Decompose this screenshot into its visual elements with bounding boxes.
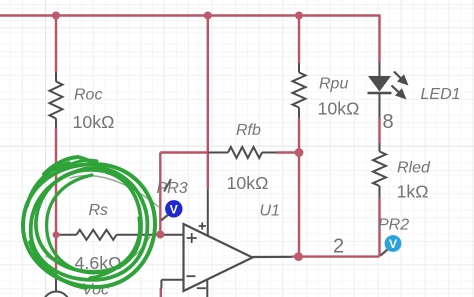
green scribble annotation around Rs: [23, 157, 159, 288]
wire top rail: [0, 16, 380, 63]
node junction dots: [52, 12, 303, 262]
voltage source Voc: [43, 270, 70, 297]
resistor Roc: [50, 72, 63, 128]
probe PR3: [161, 200, 183, 220]
svg-text:8: 8: [383, 111, 394, 133]
op-amp V- marker: [197, 287, 206, 289]
wire Roc to Voc source: [55, 128, 57, 270]
wire output horizontal: [292, 255, 380, 257]
node rail-Roc: [52, 12, 60, 20]
svg-text:2: 2: [333, 236, 344, 258]
svg-text:U1: U1: [260, 203, 280, 220]
op-amp + input marker: [187, 222, 206, 288]
resistor Rled: [373, 143, 386, 197]
wire output node vertical: [298, 153, 300, 257]
svg-text:Rfb: Rfb: [236, 122, 261, 139]
svg-text:Rs: Rs: [89, 202, 109, 219]
svg-text:10kΩ: 10kΩ: [227, 173, 269, 193]
wire Rfb right segment: [277, 151, 300, 153]
op-amp V+ marker: [199, 225, 206, 227]
wire rail to Roc: [55, 16, 57, 73]
svg-text:Rled: Rled: [397, 160, 431, 177]
LED1: [368, 62, 409, 118]
wire LED to Rled: [378, 118, 380, 144]
svg-text:PR2: PR2: [378, 217, 409, 234]
node rail-V+: [204, 12, 212, 20]
svg-text:PR3: PR3: [157, 180, 188, 197]
svg-text:LED1: LED1: [421, 86, 461, 103]
svg-text:V: V: [389, 237, 397, 251]
resistor Rs: [56, 230, 184, 240]
op-amp U1: [161, 189, 292, 297]
svg-text:Rpu: Rpu: [319, 76, 348, 93]
op-amp - input marker: [187, 275, 196, 277]
svg-text:V: V: [170, 202, 178, 216]
wire Rled bottom to output: [378, 197, 380, 257]
node +input: [156, 231, 164, 239]
node Rfb-Rpu: [295, 148, 304, 157]
node output: [294, 252, 303, 261]
wire rail to op-amp V+: [207, 16, 209, 190]
probe PR2: [381, 235, 402, 255]
node Rs-left: [53, 231, 60, 238]
resistor Rfb: [208, 147, 277, 158]
wire feedback vertical to +input node: [159, 153, 161, 235]
svg-text:10kΩ: 10kΩ: [318, 99, 360, 119]
major grid line horizontal y=146: [0, 28, 474, 265]
wire Rpu to Rfb node: [298, 118, 300, 153]
major grid line vertical x=45.5: [46, 0, 402, 297]
wire Rfb left segment: [160, 151, 208, 153]
svg-text:1kΩ: 1kΩ: [397, 182, 429, 202]
svg-text:Roc: Roc: [74, 87, 102, 104]
wire -input to bottom edge: [160, 288, 162, 297]
node rail-Rpu: [295, 12, 303, 20]
wire rail to Rpu: [298, 16, 300, 64]
resistor Rpu: [293, 63, 306, 118]
svg-text:10kΩ: 10kΩ: [73, 112, 115, 132]
stray slash mark over PR3: [164, 179, 171, 192]
